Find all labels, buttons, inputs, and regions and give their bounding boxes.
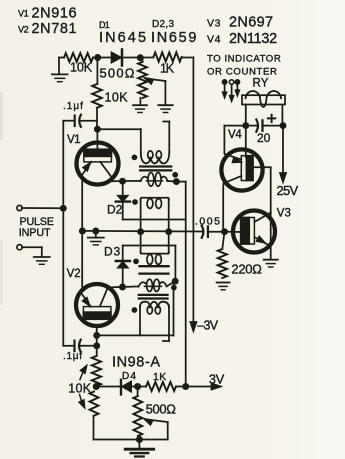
- svg-text:1K: 1K: [160, 62, 175, 76]
- svg-text:D2,3: D2,3: [152, 19, 174, 30]
- svg-text:3V: 3V: [209, 372, 225, 387]
- svg-text:2N781: 2N781: [32, 21, 78, 37]
- svg-text:V1: V1: [18, 9, 29, 19]
- svg-text:D4: D4: [122, 371, 137, 382]
- svg-text:2N916: 2N916: [32, 6, 78, 22]
- svg-text:D3: D3: [104, 245, 121, 259]
- svg-text:1K: 1K: [153, 371, 167, 383]
- svg-text:V2: V2: [18, 25, 29, 35]
- svg-text:10K: 10K: [68, 382, 91, 396]
- svg-text:V3: V3: [277, 208, 291, 220]
- svg-text:INPUT: INPUT: [19, 227, 51, 239]
- svg-text:IN98-A: IN98-A: [112, 355, 161, 371]
- svg-text:V1: V1: [67, 134, 80, 146]
- svg-text:2N1132: 2N1132: [229, 31, 277, 47]
- svg-text:RY: RY: [253, 78, 269, 90]
- svg-text:V4: V4: [228, 129, 242, 141]
- svg-text:500Ω: 500Ω: [100, 66, 136, 81]
- svg-text:V2: V2: [67, 268, 81, 280]
- svg-text:2N697: 2N697: [229, 15, 273, 31]
- svg-text:220Ω: 220Ω: [231, 262, 262, 277]
- svg-text:10K: 10K: [70, 61, 93, 75]
- svg-text:25V: 25V: [277, 183, 299, 198]
- svg-text:OR COUNTER: OR COUNTER: [207, 66, 278, 77]
- svg-text:20: 20: [257, 131, 271, 145]
- svg-text:IN645: IN645: [99, 30, 148, 46]
- svg-text:–3V: –3V: [197, 319, 218, 333]
- svg-text:.005: .005: [195, 216, 221, 228]
- svg-text:IN659: IN659: [151, 30, 198, 46]
- svg-text:TO INDICATOR: TO INDICATOR: [207, 53, 281, 64]
- svg-text:D1: D1: [99, 20, 110, 30]
- svg-text:500Ω: 500Ω: [146, 402, 177, 417]
- svg-text:V4: V4: [207, 34, 221, 46]
- svg-text:V3: V3: [207, 18, 221, 30]
- svg-text:10K: 10K: [105, 91, 129, 105]
- svg-text:D2: D2: [107, 203, 123, 217]
- svg-text:.1μf: .1μf: [63, 351, 83, 362]
- svg-text:.1μf: .1μf: [63, 101, 84, 112]
